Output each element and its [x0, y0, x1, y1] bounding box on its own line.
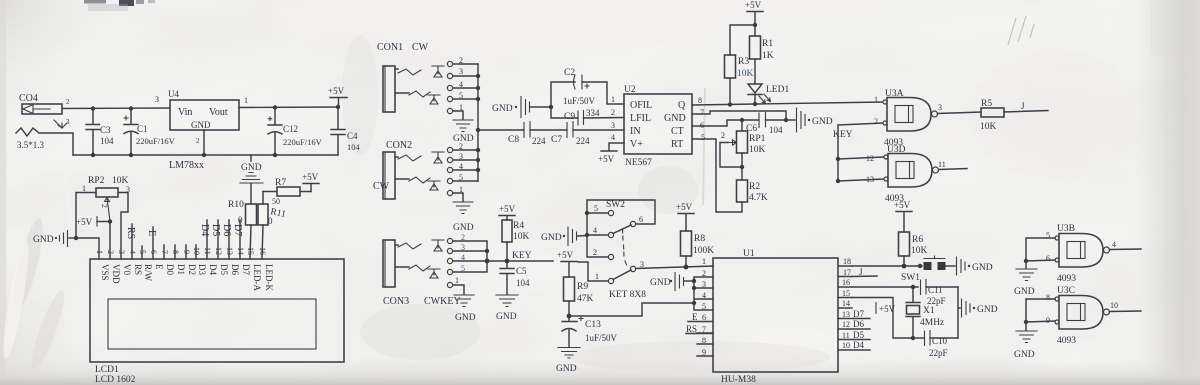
resistor R2 4.7K [692, 139, 768, 212]
ground (C6, sideways) [786, 108, 833, 132]
wire KEY net to gates [833, 123, 884, 181]
resistor R9 47K [564, 277, 594, 316]
svg-text:OFIL: OFIL [630, 100, 652, 111]
svg-text:+5V: +5V [598, 154, 615, 164]
CO4 sleeve contact [16, 120, 73, 155]
svg-text:5: 5 [138, 250, 147, 254]
wires U3B inputs [1026, 238, 1055, 261]
node junction C6 left [740, 118, 744, 122]
svg-text:2: 2 [66, 98, 70, 106]
svg-text:Q: Q [678, 100, 686, 111]
svg-text:224: 224 [532, 136, 546, 146]
ground (U1 pins 2-3, sideways) [650, 273, 694, 291]
svg-text:1uF/50V: 1uF/50V [563, 96, 596, 106]
node junction R3 [728, 102, 732, 106]
svg-text:104: 104 [769, 125, 783, 135]
capacitor C9 334 [551, 107, 624, 125]
wire U3C output [1110, 310, 1142, 313]
svg-text:+5V: +5V [557, 250, 574, 260]
svg-text:1: 1 [595, 272, 599, 281]
svg-text:4093: 4093 [1057, 336, 1076, 346]
capacitor C4 [331, 107, 361, 155]
svg-text:2: 2 [611, 108, 615, 117]
svg-text:CW: CW [412, 42, 429, 53]
resistor R3 10K [725, 25, 756, 105]
svg-text:R3: R3 [738, 57, 749, 67]
wire U1 left pin bus [694, 277, 713, 310]
ground (CON1) [453, 111, 474, 144]
node junction KEY/R4 [505, 259, 510, 264]
capacitor C10 22pF [913, 331, 958, 359]
U1 left pin stubs [686, 257, 713, 357]
svg-text:D7: D7 [232, 224, 243, 236]
svg-text:3: 3 [155, 95, 159, 104]
svg-text:KET 8X8: KET 8X8 [609, 290, 646, 300]
svg-text:D7: D7 [241, 264, 251, 275]
svg-text:R10: R10 [228, 200, 244, 210]
wire LCD pin2 VDD [109, 222, 111, 260]
svg-text:3.5*1.3: 3.5*1.3 [17, 140, 45, 150]
node junction X1 top [911, 285, 915, 289]
svg-text:RS: RS [133, 264, 143, 275]
capacitor C11 22pF [921, 280, 959, 307]
svg-text:4: 4 [611, 133, 615, 142]
svg-text:1: 1 [82, 184, 86, 193]
svg-text:LM78xx: LM78xx [169, 160, 204, 171]
svg-text:+5V: +5V [302, 172, 319, 182]
svg-text:+5V: +5V [76, 217, 93, 227]
svg-text:10: 10 [1110, 301, 1118, 310]
node junction U3B inputs [1024, 259, 1028, 263]
wire LCD pin6 E [146, 227, 157, 259]
faint pencil marks top right [1008, 16, 1034, 45]
svg-text:1uF/50V: 1uF/50V [585, 333, 618, 343]
svg-text:D6: D6 [230, 264, 240, 275]
svg-text:+5V: +5V [676, 202, 693, 212]
svg-text:100K: 100K [693, 246, 714, 256]
svg-text:LFIL: LFIL [630, 113, 651, 124]
svg-text:E: E [146, 230, 157, 236]
svg-text:D3: D3 [197, 264, 207, 275]
svg-text:R8: R8 [694, 234, 705, 244]
svg-text:6: 6 [1046, 254, 1050, 263]
wire U4 GND pin [203, 130, 205, 155]
svg-text:334: 334 [586, 108, 600, 118]
wires LCD pins D4-D7 [199, 220, 243, 259]
svg-text:4: 4 [593, 226, 597, 235]
svg-text:C11: C11 [928, 285, 943, 295]
svg-text:12: 12 [842, 320, 850, 329]
svg-text:C12: C12 [283, 124, 298, 134]
capacitor C1 [124, 109, 176, 156]
svg-text:16: 16 [842, 278, 850, 287]
svg-text:C9: C9 [564, 112, 575, 122]
NAND gate U3D 4093 [866, 145, 946, 204]
NAND gate U3B 4093 [1046, 224, 1116, 284]
svg-text:8: 8 [698, 96, 702, 105]
svg-text:104: 104 [347, 142, 361, 152]
svg-text:3: 3 [459, 67, 463, 76]
svg-text:D5: D5 [210, 224, 221, 236]
svg-text:4: 4 [702, 291, 706, 300]
svg-text:C8: C8 [508, 135, 519, 145]
capacitor C13 1uF/50V [562, 316, 618, 347]
node junctions U1 left bus [692, 279, 696, 305]
node junctions SW2 bus [585, 211, 589, 237]
svg-text:VSS: VSS [100, 264, 110, 281]
connector CON1 [377, 42, 463, 114]
svg-text:GND: GND [33, 235, 54, 245]
svg-text:3: 3 [611, 121, 615, 130]
connector CO4 [17, 93, 70, 150]
svg-text:J: J [1021, 101, 1025, 111]
ground (U3C) [1014, 322, 1037, 360]
svg-text:14: 14 [842, 299, 850, 308]
svg-text:2: 2 [100, 204, 109, 208]
svg-text:7: 7 [160, 250, 169, 254]
svg-text:D7: D7 [853, 309, 864, 319]
ground (SW2, sideways) [541, 227, 587, 246]
svg-text:5: 5 [594, 204, 598, 213]
svg-text:22pF: 22pF [927, 296, 946, 306]
svg-text:15: 15 [246, 247, 255, 255]
power +5V (U1 pin14, sideways) [876, 303, 896, 315]
svg-text:224: 224 [576, 136, 590, 146]
svg-text:1: 1 [95, 250, 104, 254]
connector CON2 [373, 140, 463, 199]
LCD1 module [90, 259, 344, 385]
svg-text:D5: D5 [853, 330, 864, 340]
svg-text:D2: D2 [187, 264, 197, 275]
svg-text:2: 2 [721, 131, 725, 140]
resistor R4 10K [502, 216, 530, 261]
svg-text:4.7K: 4.7K [749, 193, 768, 203]
node junction X1 bottom [911, 336, 915, 340]
svg-text:RS: RS [686, 324, 697, 334]
svg-text:E: E [154, 264, 164, 270]
svg-text:D4: D4 [853, 340, 864, 350]
svg-text:+5V: +5V [879, 304, 896, 314]
svg-text:13: 13 [842, 310, 850, 319]
switch SW1 [901, 256, 955, 283]
LCD pad labels VSS..LED-K [100, 264, 274, 291]
svg-text:1: 1 [244, 96, 248, 105]
svg-text:U3C: U3C [1057, 286, 1075, 296]
svg-text:13: 13 [225, 247, 234, 255]
svg-text:GND: GND [455, 313, 476, 323]
regulator U4 LM78xx [155, 89, 248, 171]
NAND gate U3C 4093 [1046, 286, 1118, 346]
svg-text:RP1: RP1 [749, 134, 766, 144]
svg-text:6: 6 [639, 215, 643, 224]
svg-text:R4: R4 [513, 221, 524, 231]
svg-text:10: 10 [192, 247, 201, 255]
svg-text:GND: GND [556, 364, 577, 374]
svg-text:D1: D1 [176, 264, 186, 275]
wire KEY net [487, 251, 553, 261]
svg-text:47K: 47K [577, 294, 594, 304]
NAND gate U3A 4093 [874, 89, 942, 148]
wire pin15 net [852, 298, 913, 339]
node junction C3 [91, 106, 95, 110]
wire top rail [62, 107, 170, 110]
LED LED1 [748, 84, 789, 104]
svg-text:CWKEY: CWKEY [424, 296, 461, 307]
resistor R7 [263, 178, 311, 196]
node junction RP1/R2 [740, 165, 744, 169]
wires CON3 pins to sub-bus [395, 241, 487, 272]
svg-text:1: 1 [874, 95, 878, 104]
svg-text:U4: U4 [168, 89, 179, 99]
power +5V (U2 V+, below) [598, 143, 624, 164]
capacitor C12 [268, 108, 323, 156]
node junction R9/C13 [567, 314, 572, 319]
crystal X1 4MHz [906, 287, 944, 338]
wire U2 pin7 net [692, 111, 786, 120]
ground (CON3) [453, 285, 476, 323]
svg-text:9: 9 [182, 250, 191, 254]
svg-text:8: 8 [171, 250, 180, 254]
svg-text:RT: RT [671, 139, 683, 150]
svg-text:2: 2 [874, 117, 878, 126]
node junction LED1 [753, 102, 757, 106]
svg-text:10K: 10K [749, 145, 766, 155]
svg-text:4MHz: 4MHz [920, 318, 944, 328]
wire U3A output [938, 112, 982, 114]
node junction GND/RP2 [74, 236, 78, 240]
svg-text:R2: R2 [749, 182, 760, 192]
svg-text:CT: CT [671, 126, 684, 137]
svg-text:Vin: Vin [178, 107, 192, 118]
svg-text:11: 11 [938, 160, 946, 169]
svg-text:LED-A: LED-A [252, 264, 262, 291]
svg-text:1: 1 [611, 95, 615, 104]
node junctions KEY bus [836, 157, 840, 183]
resistor R8 100K [681, 231, 715, 267]
svg-text:J: J [859, 267, 863, 277]
svg-text:GND: GND [650, 278, 671, 288]
svg-text:5: 5 [701, 133, 705, 142]
svg-text:V+: V+ [630, 139, 643, 150]
svg-text:104: 104 [100, 136, 114, 146]
svg-text:R/W: R/W [143, 264, 153, 282]
svg-text:GND: GND [241, 163, 262, 173]
svg-text:C4: C4 [347, 131, 358, 141]
svg-text:GND: GND [1014, 287, 1035, 297]
svg-text:17: 17 [843, 268, 851, 277]
svg-text:3: 3 [117, 250, 126, 254]
svg-text:GND: GND [972, 263, 993, 273]
wire U3B output [1110, 248, 1142, 251]
svg-text:CON1: CON1 [377, 42, 403, 53]
svg-text:CON3: CON3 [383, 296, 409, 307]
capacitor C7 224 [551, 122, 624, 147]
svg-text:4: 4 [128, 250, 137, 254]
resistor R11 [258, 192, 287, 260]
capacitor C8 224 [508, 122, 567, 147]
svg-text:11: 11 [842, 331, 850, 340]
svg-text:LED-K: LED-K [264, 264, 274, 291]
svg-text:HU-M38: HU-M38 [721, 375, 756, 385]
ground (U2 input, sideways) [492, 97, 551, 118]
svg-text:7: 7 [700, 108, 704, 117]
svg-text:U3B: U3B [1057, 224, 1075, 234]
crease marks [64, 4, 705, 262]
svg-text:10K: 10K [911, 246, 928, 256]
svg-text:VDD: VDD [111, 264, 121, 284]
svg-text:2: 2 [106, 250, 115, 254]
node junction C2/C9 [549, 105, 553, 109]
svg-text:10K: 10K [513, 232, 530, 242]
svg-text:V0: V0 [122, 264, 132, 275]
node junctions CON3 [485, 249, 490, 264]
node junction U3C inputs [1024, 320, 1028, 324]
svg-text:GND: GND [496, 312, 517, 322]
node junction R8/U1 pin1 [684, 265, 689, 270]
svg-text:8: 8 [1046, 293, 1050, 302]
svg-text:7: 7 [702, 325, 706, 334]
svg-text:3: 3 [66, 118, 70, 126]
wire CON bus [477, 64, 479, 181]
node junction C12 [273, 105, 277, 109]
wire audio line to C8 [478, 129, 524, 131]
svg-text:16: 16 [258, 247, 267, 255]
svg-text:15: 15 [842, 289, 850, 298]
svg-text:2: 2 [593, 248, 597, 257]
ground (power rail) [240, 155, 263, 183]
resistor R6 10K [899, 232, 928, 266]
svg-text:CO4: CO4 [19, 93, 38, 104]
svg-text:6: 6 [702, 313, 706, 322]
svg-text:3: 3 [938, 103, 942, 112]
power +5V (R1/R3) [745, 0, 763, 25]
svg-text:D0: D0 [165, 264, 175, 275]
svg-text:D4: D4 [208, 264, 218, 275]
svg-text:GND: GND [453, 134, 474, 144]
ground (C13) [556, 348, 580, 375]
svg-text:+5V: +5V [499, 204, 516, 214]
wire U4 output rail [239, 106, 338, 109]
ground (C5) [496, 295, 518, 322]
wires CON1 pins to bus [395, 64, 478, 99]
svg-text:D5: D5 [219, 264, 229, 275]
power +5V (R7, sideways) [302, 172, 319, 192]
node junctions CON1 bus [476, 74, 480, 101]
ground (SW1, sideways) [957, 257, 993, 275]
svg-text:220uF/16V: 220uF/16V [283, 137, 323, 147]
ground (C11/C10, sideways) [958, 299, 998, 317]
svg-text:GND: GND [541, 233, 562, 243]
svg-text:10K: 10K [737, 69, 754, 79]
svg-text:14: 14 [236, 247, 245, 255]
wire pin17 stub J [852, 275, 877, 278]
LCD pin numbers 1-16 [95, 247, 267, 255]
node junction R6/pin18 [902, 264, 907, 269]
svg-text:104: 104 [516, 278, 530, 288]
wires LCD pins D0-D3 [164, 245, 196, 259]
wires U3C inputs [1026, 299, 1055, 322]
power +5V (R4) [499, 204, 516, 216]
wire U2 Q output net [692, 102, 884, 105]
node junctions bottom rail [91, 153, 277, 157]
capacitor C3 [86, 109, 114, 156]
svg-text:LCD1: LCD1 [95, 365, 119, 375]
svg-text:LCD 1602: LCD 1602 [95, 375, 136, 385]
node junction +5V/C4 [336, 105, 340, 109]
svg-text:R6: R6 [912, 235, 923, 245]
svg-text:GND: GND [1014, 350, 1035, 360]
wire U3D output [939, 169, 968, 170]
potentiometer RP2 10K [76, 176, 130, 259]
svg-text:11: 11 [203, 247, 212, 255]
svg-text:C3: C3 [100, 125, 111, 135]
svg-text:22pF: 22pF [929, 348, 948, 358]
svg-text:GND: GND [977, 305, 998, 315]
svg-text:E: E [692, 312, 698, 322]
wire LCD pin5 [141, 246, 143, 259]
power +5V (R9) [557, 250, 577, 277]
svg-text:R9: R9 [577, 282, 588, 292]
svg-text:4093: 4093 [1057, 274, 1076, 284]
svg-text:KEY: KEY [833, 130, 853, 140]
svg-text:CON2: CON2 [386, 140, 412, 151]
potentiometer RP1 10K [720, 120, 766, 180]
svg-text:X1: X1 [923, 306, 935, 316]
svg-text:4: 4 [1112, 240, 1116, 249]
svg-text:8: 8 [702, 336, 706, 345]
wire R5 output J [1004, 101, 1048, 112]
wire LCD pin1 VSS [76, 238, 99, 259]
svg-text:3: 3 [702, 280, 706, 289]
photo edge marks top [84, 0, 155, 6]
svg-text:5: 5 [702, 302, 706, 311]
resistor R10 [228, 184, 257, 259]
svg-text:NE567: NE567 [625, 158, 652, 168]
svg-text:10: 10 [842, 341, 850, 350]
svg-text:18: 18 [843, 257, 851, 266]
ground (U3B) [1014, 261, 1037, 297]
svg-text:2: 2 [196, 137, 200, 145]
capacitor C6 104 [742, 113, 786, 136]
svg-text:12: 12 [214, 247, 223, 255]
svg-text:C13: C13 [585, 320, 601, 330]
node junction C6 right [784, 118, 788, 122]
wire pin18 net to SW1 [852, 265, 922, 267]
capacitor C2 1uF/50V [551, 68, 624, 107]
svg-text:1K: 1K [762, 51, 774, 61]
svg-text:D4: D4 [199, 224, 210, 236]
svg-text:6: 6 [149, 250, 158, 254]
svg-text:GND: GND [812, 117, 833, 127]
svg-text:9: 9 [702, 348, 706, 357]
connector CON3 [383, 233, 465, 307]
resistor R1 1K [750, 25, 774, 83]
svg-text:R1: R1 [762, 39, 773, 49]
svg-text:D6: D6 [221, 224, 232, 236]
svg-text:+5V: +5V [894, 200, 911, 210]
svg-text:CW: CW [373, 181, 390, 192]
node junction +5V R3/R1 [753, 23, 757, 27]
svg-text:SW1: SW1 [901, 273, 920, 283]
wire U2 pin6 net [692, 120, 742, 126]
svg-text:C7: C7 [551, 135, 562, 145]
U1 right pin stubs [838, 257, 870, 350]
power +5V (LCD VDD, sideways) [76, 217, 112, 228]
wire LCD pin4 RS [125, 224, 136, 259]
svg-text:13: 13 [866, 175, 874, 184]
wire bottom rail [73, 154, 338, 156]
svg-text:RP2: RP2 [88, 176, 105, 186]
